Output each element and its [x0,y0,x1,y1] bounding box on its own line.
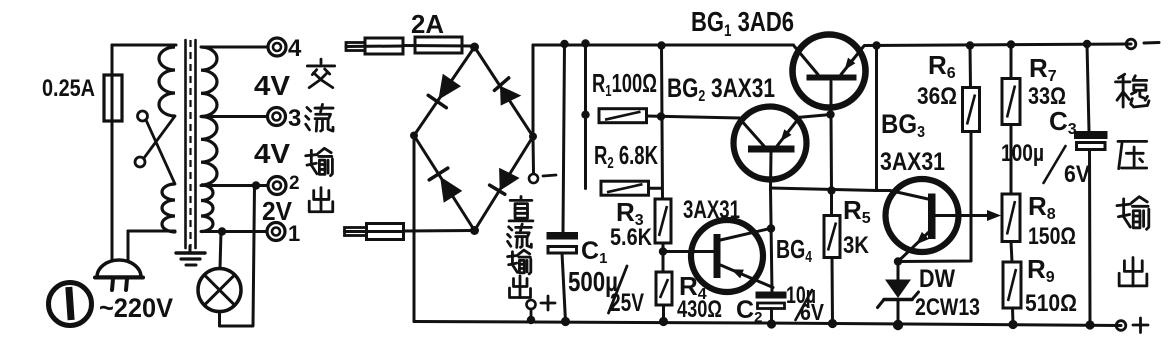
svg-text:BG3: BG3 [881,109,925,141]
svg-text:510Ω: 510Ω [1025,290,1077,317]
wire primary bottom [128,231,175,232]
label regulated output (Chinese) [1116,74,1149,107]
wire BG2 base horizontal [771,188,877,191]
wire bridge left node to bottom rail [413,136,416,322]
svg-text:R6: R6 [928,50,956,82]
node C3 rail bottom [1085,320,1094,329]
node BG4 base tap [659,247,667,255]
wire bottom rail (positive) [414,322,1121,326]
wire BG1 base down [830,115,834,191]
wire top rail (negative) [533,44,794,47]
wire R9 bottom [1011,308,1015,325]
resistor R5 [830,191,833,216]
transistor BG3 [886,179,959,252]
voltage selector switch [138,111,148,121]
svg-text:4V: 4V [254,138,290,169]
terminal 2 [268,177,286,195]
node R7 rail [1007,40,1015,48]
terminal 4 [268,38,286,56]
resistor R1 [599,109,647,123]
svg-text:4V: 4V [254,70,290,101]
wire R branch vertical [662,46,663,200]
node R5 top [827,186,835,194]
svg-text:430Ω: 430Ω [677,296,722,323]
svg-text:36Ω: 36Ω [917,83,957,110]
svg-text:R5: R5 [843,195,871,227]
capacitor C3 [1074,131,1108,139]
wire lamp bottom to tap2 [220,187,255,327]
wire bridge diagonal top-right [475,47,534,137]
svg-text:BG4: BG4 [776,234,812,266]
wire bridge diagonal bottom-right [475,137,534,231]
node BG4 collector [767,224,775,232]
svg-text:R1100Ω: R1100Ω [592,68,657,100]
wire R6 bottom [898,132,971,262]
wire BG4 base [663,250,715,253]
wire C3 bottom [1088,150,1092,326]
resistor R2 [601,181,649,195]
node DW rail [893,320,903,330]
transformer primary winding top section [159,47,175,116]
fuse 0.25A [104,75,122,121]
svg-text:6V: 6V [800,299,825,325]
indicator symbol (circled bar) [49,283,92,326]
svg-text:3AX31: 3AX31 [880,148,945,176]
node R1R2 rail [581,39,589,47]
resistor R9 [1003,262,1021,308]
node rail x877 [872,41,880,49]
wire rail drop x877 [875,46,878,191]
wire BG2 emitter to BG1 base [797,115,831,118]
svg-text:2V: 2V [262,196,293,226]
node R6 rail [966,41,974,49]
node R branch rail [657,41,665,49]
svg-text:3K: 3K [843,232,870,259]
label DC output (Chinese) [509,197,533,221]
arrow to R8 [987,210,1001,221]
svg-text:R7: R7 [1029,53,1057,85]
zener DW [897,262,900,282]
node C1 rail bottom [561,317,570,326]
node tap1 junction [218,227,226,235]
transistor BG4 [691,220,763,292]
resistor R3 [655,199,671,243]
wire R7 to R8 [1010,125,1013,195]
svg-text:2CW13: 2CW13 [915,294,980,321]
transformer core [184,40,187,248]
wire DC- stub [532,137,536,174]
node bridge left [410,132,418,140]
AC plug [97,260,141,277]
node R1 left [581,111,589,119]
wire R8 to R9 [1011,242,1012,263]
wire C2 bottom [770,309,773,325]
svg-text:25V: 25V [610,289,644,317]
capacitor C2 [756,292,787,299]
svg-text:4: 4 [288,35,302,62]
resistor R7 [1002,79,1020,125]
resistor R6 [963,88,980,132]
svg-text:DW: DW [919,265,955,293]
svg-text:6V: 6V [1064,161,1090,188]
input plug (upper) [346,45,403,49]
svg-text:C1: C1 [581,237,607,267]
wire R7 branch top [1010,45,1013,79]
fuse 2A [403,44,474,48]
svg-text:150Ω: 150Ω [1028,223,1076,250]
wire secondary tap 4 [201,46,268,49]
svg-text:R2 6.8K: R2 6.8K [594,140,658,172]
svg-text:C2: C2 [736,296,762,326]
node R4 rail [659,317,668,326]
wire R4 bottom [662,305,665,322]
wire lamp top [220,232,221,269]
wire bridge diagonal top-left [414,47,475,136]
wire R3 to R4 [662,243,665,272]
svg-text:5.6K: 5.6K [610,224,653,251]
pilot lamp [198,269,241,312]
wire to BG3 collector [877,189,891,192]
wire R1 right / BG2 collector [647,116,741,118]
node bridge bottom [470,226,479,235]
node R1 right junction [657,112,665,120]
transformer secondary winding 4V section [201,47,217,117]
node R5 rail [828,319,837,328]
transformer secondary winding 2V section [201,185,213,232]
wire lower plug to bridge [404,229,475,233]
diode D1 (top-left) [438,74,461,100]
transformer primary winding bottom section [162,184,175,232]
transformer secondary winding 4V section 2 [201,117,217,186]
diode D4 (bottom-right) [499,168,519,191]
svg-text:3AX31: 3AX31 [683,196,740,224]
terminal output - [1126,39,1136,49]
svg-text:0.25A: 0.25A [42,75,95,102]
diode D3 (top-right) [500,86,521,106]
svg-text:~220V: ~220V [99,293,173,323]
node R9 rail [1008,320,1017,329]
node C3 rail [1083,40,1091,48]
terminal output + [1116,321,1126,331]
node BG3 emitter [894,257,902,265]
node BG1 base [826,110,834,118]
wire R6 branch [969,46,973,88]
wire R2 right [649,187,663,190]
terminal 1 [267,223,285,241]
wire bridge diagonal bottom-left [414,136,475,231]
svg-text:2A: 2A [411,9,444,39]
terminal DC- [529,174,538,183]
svg-text:100µ: 100µ [1001,140,1044,167]
transistor BG1 [793,35,866,108]
wire R1R2 branch vertical [584,44,587,189]
wire secondary tap 1 [201,230,267,233]
terminal 3 [268,108,286,126]
wire secondary tap 2 [201,184,268,187]
svg-text:R9: R9 [1027,254,1055,286]
wire C3 top [1087,44,1089,131]
capacitor C1 [547,232,579,240]
label AC output (Chinese) [307,59,334,88]
terminal DC+ [527,300,536,309]
svg-text:C3: C3 [1049,106,1077,138]
resistor R4 [656,272,672,305]
node tap2 junction [252,181,260,189]
wire BG2 base to C2 [771,188,773,292]
wire mains live (fuse branch) [111,45,114,260]
wire secondary tap 3 [201,115,268,118]
ground [189,246,192,252]
diode D2 (bottom-left) [440,177,462,203]
resistor R8 [1002,194,1020,242]
svg-text:BG1 3AD6: BG1 3AD6 [691,6,794,40]
node bridge right [529,133,537,141]
wire C1 top [563,44,565,232]
svg-text:3: 3 [288,105,301,132]
node C2 rail [767,319,776,328]
node bridge top [470,43,479,52]
wire C1 bottom [562,253,566,322]
input plug (lower) [345,230,404,233]
svg-text:R8: R8 [1028,191,1056,223]
transistor BG2 [734,107,807,180]
svg-text:BG2 3AX31: BG2 3AX31 [667,73,775,105]
svg-text:2: 2 [289,173,300,194]
node C1 rail top [560,40,568,48]
wire bridge right node to top rail [532,45,535,137]
